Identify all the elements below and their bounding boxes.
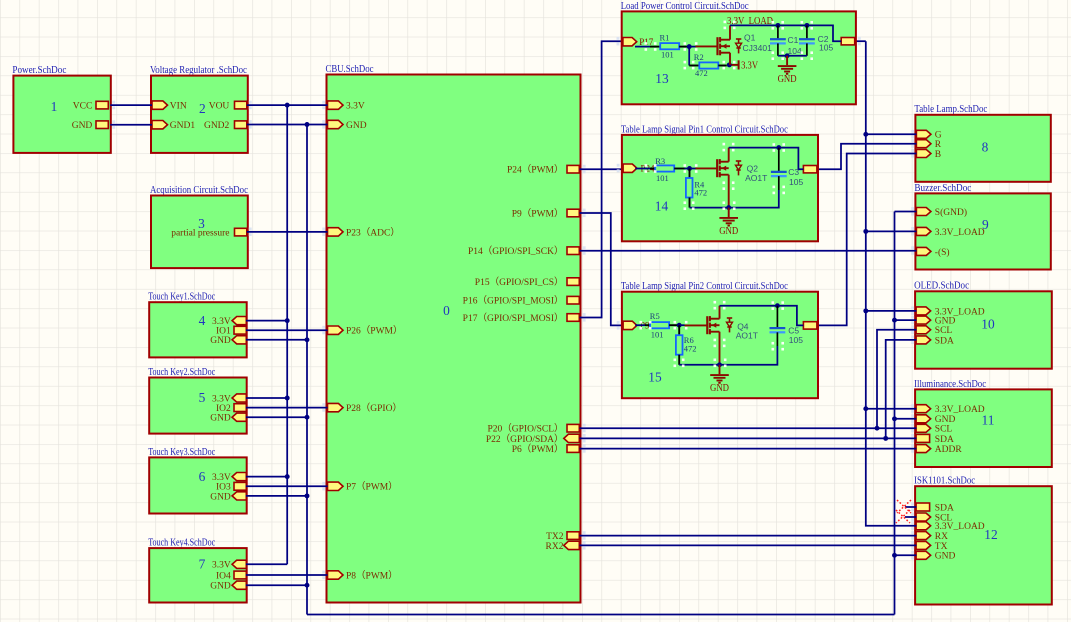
svg-text:RX: RX <box>935 532 948 542</box>
svg-text:3.3V_LOAD: 3.3V_LOAD <box>935 522 985 532</box>
wire P6 to Illuminance ADDR <box>580 448 917 450</box>
sheet entry SCL (ISK1101) <box>916 513 931 521</box>
wire block13 output to 3.3V_LOAD rail <box>856 40 866 42</box>
sheet entry P9（PWM） (CBU right) <box>567 209 579 217</box>
wire TouchKey4 GND <box>246 584 307 586</box>
svg-text:IO2: IO2 <box>216 404 231 414</box>
svg-text:472: 472 <box>694 188 707 198</box>
svg-text:OLED.SchDoc: OLED.SchDoc <box>914 281 970 292</box>
sheet entry TX (ISK1101) <box>916 541 931 549</box>
svg-text:GND: GND <box>210 492 231 502</box>
sheet entry P24（PWM） (CBU right) <box>567 165 579 173</box>
sheet entry R (Table Lamp) <box>916 140 931 148</box>
wire port to R3 <box>635 168 650 170</box>
sheet entry P17 (block13) <box>623 38 637 46</box>
svg-text:12: 12 <box>984 527 997 542</box>
svg-text:3.3V: 3.3V <box>212 317 231 327</box>
wire 3.3V_LOAD top <box>730 25 841 41</box>
svg-text:105: 105 <box>789 177 803 187</box>
sheet entry P28（GPIO） (CBU left) <box>328 403 344 411</box>
node junction C5 top <box>775 303 780 308</box>
wire R6 to bottom net <box>679 364 719 366</box>
wire bottom GND return <box>307 614 895 616</box>
svg-text:7: 7 <box>199 557 206 572</box>
svg-text:R5: R5 <box>650 311 660 321</box>
sheet entry GND (OLED) <box>916 316 931 324</box>
svg-text:P6（PWM）: P6（PWM） <box>512 443 564 455</box>
sheet entry P26（PWM） (CBU left) <box>328 326 344 334</box>
svg-text:ISK1101.SchDoc: ISK1101.SchDoc <box>914 476 975 487</box>
svg-text:GND: GND <box>210 336 231 346</box>
resistor R3 <box>655 165 674 171</box>
ground block15 <box>719 365 721 374</box>
resistor R6 <box>676 335 683 355</box>
sheet entry out (block15 right) <box>803 322 817 329</box>
wire OLED SCL down to P20 net <box>877 330 916 428</box>
svg-text:C1: C1 <box>788 35 799 45</box>
wire C1-C2 bottom <box>778 55 807 57</box>
wire ISK SDA stub <box>905 506 916 508</box>
wire P24 to block14 port <box>580 168 623 170</box>
svg-text:SCL: SCL <box>935 326 953 336</box>
pin C2 bottom <box>806 43 808 55</box>
pin C3 top <box>778 148 780 172</box>
wire partial pressure to P23 <box>247 231 328 233</box>
pin R4 bottom <box>689 198 691 208</box>
wire TouchKey2 GND <box>246 416 307 418</box>
pin R6 bottom <box>678 355 680 365</box>
sheet entry P6（PWM） (CBU right) <box>567 445 579 453</box>
node junction C2 top <box>804 23 809 28</box>
junction dots <box>285 103 290 108</box>
pin R1 right <box>679 46 689 48</box>
svg-text:105: 105 <box>789 335 803 345</box>
wire TouchKey4 3.3V <box>246 563 287 565</box>
sheet entry P24 (block14) <box>623 164 637 172</box>
pin C5 top <box>776 306 778 328</box>
sheet entry SDA (Illuminance) <box>916 434 930 442</box>
svg-text:R: R <box>935 140 942 150</box>
svg-text:AO1T: AO1T <box>745 173 767 183</box>
node junction C1 top <box>775 23 780 28</box>
transistor Q2 <box>716 159 718 177</box>
sheet entry SCL (Illuminance) <box>916 424 931 432</box>
svg-text:GND: GND <box>210 582 231 592</box>
pin C1 top <box>777 25 779 39</box>
pin C3 bottom <box>778 176 780 190</box>
wire 3.3V_LOAD rail vertical <box>866 41 917 526</box>
wire P17 to block13 port <box>580 41 623 317</box>
svg-text:3.3V: 3.3V <box>212 394 231 404</box>
resistor R1 <box>660 43 679 49</box>
sheet entry RX2 (CBU right) <box>564 541 580 549</box>
connection hotspots <box>322 101 325 104</box>
wire C3 down to bottom net <box>690 190 779 208</box>
pin R1 left <box>650 46 660 48</box>
svg-text:P20（GPIO/SCL）: P20（GPIO/SCL） <box>487 423 563 435</box>
svg-text:VOU: VOU <box>209 102 230 112</box>
svg-text:4: 4 <box>199 313 206 328</box>
sheet entry P9 (block15) <box>623 321 637 329</box>
wire port to R5 <box>635 324 645 326</box>
wire VCC to VIN <box>110 104 152 106</box>
wire P22 to Illuminance SDA <box>580 437 917 439</box>
sheet entry P14（GPIO/SPI_SCK） (CBU right) <box>567 247 579 255</box>
svg-text:8: 8 <box>982 140 989 155</box>
svg-text:C3: C3 <box>788 167 799 177</box>
compile error marker X at ISK SCL <box>896 510 910 523</box>
wire drain top to C3 <box>729 148 804 170</box>
sheet entry 3.3V_LOAD (OLED) <box>916 307 931 315</box>
svg-text:472: 472 <box>695 68 708 78</box>
wire TouchKey1 IO1 <box>246 329 328 331</box>
svg-text:Table Lamp.SchDoc: Table Lamp.SchDoc <box>914 104 987 115</box>
node junction C3 top <box>776 145 781 150</box>
sheet entry RX (ISK1101) <box>916 532 931 540</box>
resistor R4 <box>686 178 693 198</box>
selection marks block13 <box>645 42 648 45</box>
wire GND rail vertical left <box>306 125 308 615</box>
svg-text:5: 5 <box>199 390 206 405</box>
wire GND2 to CBU GND <box>247 124 328 126</box>
wire TX2 to ISK RX <box>580 535 917 537</box>
svg-text:Voltage Regulator .SchDoc: Voltage Regulator .SchDoc <box>150 65 247 76</box>
svg-text:Touch Key2.SchDoc: Touch Key2.SchDoc <box>148 367 215 378</box>
svg-text:P15（GPIO/SPI_CS）: P15（GPIO/SPI_CS） <box>475 276 564 288</box>
wire TouchKey3 3.3V <box>246 476 287 478</box>
svg-text:3.3V: 3.3V <box>346 102 365 112</box>
wire Buzzer S(GND) to GND rail <box>895 211 917 213</box>
sheet entry P8（PWM） (CBU left) <box>328 571 344 579</box>
pin C2 top <box>806 25 808 39</box>
svg-text:VIN: VIN <box>170 102 187 112</box>
wire port to R1 <box>635 46 650 48</box>
svg-text:1: 1 <box>51 99 58 114</box>
svg-text:P14（GPIO/SPI_SCK）: P14（GPIO/SPI_SCK） <box>468 245 564 257</box>
wire TouchKey4 IO4 <box>246 574 328 576</box>
svg-text:R2: R2 <box>694 52 704 62</box>
wire Illuminance 3.3V_LOAD <box>866 408 917 410</box>
svg-text:GND1: GND1 <box>170 121 196 131</box>
node junction GND tap block15 <box>717 362 722 367</box>
wire P14 to Buzzer -(S) <box>580 250 917 252</box>
wire TouchKey3 IO3 <box>246 485 328 487</box>
pin C1 bottom <box>777 43 779 55</box>
svg-text:R3: R3 <box>655 156 665 166</box>
svg-text:Q2: Q2 <box>747 163 759 173</box>
wire OLED GND <box>895 319 917 321</box>
wire RX2 to ISK TX <box>580 544 917 546</box>
pin R2 left <box>689 65 699 67</box>
wire OLED SDA down to P22 net <box>886 340 917 439</box>
svg-text:Touch Key3.SchDoc: Touch Key3.SchDoc <box>148 447 215 458</box>
pin R2 right <box>718 65 727 67</box>
wire ISK SCL stub <box>905 516 916 518</box>
node junction R2-source-3.3V <box>727 62 732 67</box>
wire P20 to Illuminance SCL <box>580 427 917 429</box>
capacitor C1 <box>770 38 786 40</box>
sheet entry TX2 (CBU right) <box>567 532 579 540</box>
svg-text:Buzzer.SchDoc: Buzzer.SchDoc <box>914 183 972 194</box>
svg-text:SDA: SDA <box>935 336 954 346</box>
svg-text:P24（PWM）: P24（PWM） <box>507 164 563 176</box>
selection marks block14 <box>645 164 648 167</box>
sheet entry SDA (ISK1101) <box>916 503 930 511</box>
node junction R5-R6-gate <box>677 323 682 328</box>
svg-text:AO1T: AO1T <box>736 330 758 340</box>
sheet entry 3.3V_LOAD (Buzzer) <box>916 227 931 235</box>
svg-text:Table Lamp Signal Pin2 Control: Table Lamp Signal Pin2 Control Circuit.S… <box>621 281 788 292</box>
wire 3.3V rail vertical <box>286 105 288 564</box>
wire TouchKey1 GND <box>246 339 307 341</box>
svg-text:GND: GND <box>935 317 956 327</box>
svg-text:P16（GPIO/SPI_MOSI）: P16（GPIO/SPI_MOSI） <box>463 295 564 307</box>
svg-text:GND: GND <box>346 121 367 131</box>
sheet entry -(S) (Buzzer) <box>916 247 931 255</box>
selection marks block15 <box>640 321 643 324</box>
sheet entry SDA (OLED) <box>916 336 931 344</box>
wire TouchKey2 IO2 <box>246 407 328 409</box>
node junction R3-R4-gate <box>687 166 692 171</box>
svg-text:S(GND): S(GND) <box>935 207 967 218</box>
svg-text:P8（PWM）: P8（PWM） <box>346 569 398 581</box>
wire GND rail vertical right <box>894 212 896 615</box>
svg-text:TX2: TX2 <box>546 532 564 542</box>
ground block14 <box>728 208 730 217</box>
sheet entry P22（GPIO/SDA） (CBU right) <box>564 434 580 442</box>
svg-text:GND: GND <box>719 225 738 237</box>
pin R3 right <box>674 168 684 170</box>
svg-text:P26（PWM）: P26（PWM） <box>346 325 402 337</box>
sheet entry GND1 <box>152 121 168 129</box>
svg-text:-(S): -(S) <box>935 247 950 258</box>
pin R6 top <box>678 325 680 335</box>
sheet entry GND (CBU left) <box>328 120 344 128</box>
svg-text:13: 13 <box>655 71 669 86</box>
svg-text:ADDR: ADDR <box>935 445 963 455</box>
svg-text:GND: GND <box>72 121 93 131</box>
sheet entry SCL (OLED) <box>916 326 931 334</box>
wire 3.3V_LOAD to Table Lamp G <box>866 133 917 135</box>
sheet entry ADDR (Illuminance) <box>916 445 931 453</box>
wire GND to GND1 <box>110 124 152 126</box>
svg-text:CBU.SchDoc: CBU.SchDoc <box>326 64 374 75</box>
sheet entry B (Table Lamp) <box>916 150 931 158</box>
sheet entry VIN <box>152 101 168 109</box>
resistor R2 <box>699 62 718 68</box>
sheet entry P7（PWM） (CBU left) <box>328 482 344 490</box>
svg-text:GND: GND <box>935 552 956 562</box>
svg-text:IO4: IO4 <box>216 571 231 581</box>
wire TouchKey3 GND <box>246 495 307 497</box>
power port 3.3V <box>732 64 739 66</box>
svg-text:101: 101 <box>651 329 664 339</box>
wire P9 to block15 port <box>580 213 623 325</box>
svg-text:SDA: SDA <box>935 503 954 513</box>
sheet entry GND (Illuminance) <box>916 415 931 423</box>
pin R5 left <box>645 324 650 326</box>
svg-text:P28（GPIO）: P28（GPIO） <box>346 402 402 414</box>
svg-text:P17: P17 <box>639 37 654 47</box>
sheet entry 3.3V_LOAD (ISK1101) <box>916 522 931 530</box>
svg-text:P22（GPIO/SDA）: P22（GPIO/SDA） <box>486 433 564 445</box>
svg-text:101: 101 <box>661 50 674 60</box>
pin C5 bottom <box>776 332 778 346</box>
svg-text:Illuminance.SchDoc: Illuminance.SchDoc <box>914 379 986 390</box>
svg-text:2: 2 <box>199 101 206 116</box>
resistor R5 <box>650 322 669 328</box>
svg-text:SCL: SCL <box>935 425 953 435</box>
svg-text:P9（PWM）: P9（PWM） <box>512 207 564 219</box>
sheet entry out (block13 right) <box>841 38 855 45</box>
wire junction to gate <box>689 46 695 48</box>
svg-text:Load Power Control Circuit.Sch: Load Power Control Circuit.SchDoc <box>621 1 749 12</box>
svg-text:VCC: VCC <box>73 102 93 112</box>
wire VOU to CBU 3.3V <box>247 104 328 106</box>
capacitor C2 <box>799 38 815 40</box>
transistor Q1 <box>716 37 718 55</box>
svg-text:IO3: IO3 <box>216 483 231 493</box>
sheet entry P20（GPIO/SCL） (CBU right) <box>567 424 579 432</box>
svg-text:GND: GND <box>935 415 956 425</box>
sheet entry P23（ADC） (CBU left) <box>328 228 344 236</box>
svg-text:Acquisition Circuit.SchDoc: Acquisition Circuit.SchDoc <box>150 185 248 196</box>
sheet entry out (block14 right) <box>803 166 817 173</box>
svg-text:GND: GND <box>778 73 797 85</box>
svg-text:15: 15 <box>648 370 662 385</box>
sheet entry G (Table Lamp) <box>916 130 931 138</box>
wire C5 down to bottom net <box>720 346 778 365</box>
wire junction to gate <box>679 324 684 326</box>
ground block13 <box>786 56 788 65</box>
wire junction to gate <box>685 168 696 170</box>
wire ISK GND <box>895 554 917 556</box>
svg-text:104: 104 <box>788 46 802 56</box>
svg-text:10: 10 <box>981 317 995 332</box>
sheet entry 3.3V_LOAD (Illuminance) <box>916 405 931 413</box>
svg-text:Q1: Q1 <box>744 32 756 42</box>
sheet entry 3.3V (CBU left) <box>328 101 344 109</box>
wire TouchKey2 3.3V <box>246 397 287 399</box>
svg-text:IO1: IO1 <box>216 327 231 337</box>
svg-text:Power.SchDoc: Power.SchDoc <box>12 65 67 76</box>
wire junction down to R2 <box>688 47 690 66</box>
sheet entry P17（GPIO/SPI_MOSI） (CBU right) <box>567 314 579 322</box>
sheet entry S(GND) (Buzzer) <box>916 208 931 216</box>
wire Buzzer 3.3V_LOAD <box>866 230 917 232</box>
wire TouchKey1 3.3V <box>246 320 287 322</box>
svg-text:GND: GND <box>710 382 729 394</box>
svg-text:Touch Key4.SchDoc: Touch Key4.SchDoc <box>148 538 215 549</box>
pin R3 left <box>650 168 655 170</box>
wire block15 output to Table Lamp B <box>818 154 917 326</box>
node junction GND tap block14 <box>726 205 731 210</box>
svg-text:105: 105 <box>819 42 833 52</box>
svg-text:6: 6 <box>199 469 206 484</box>
node junction GND tap <box>785 53 790 58</box>
svg-text:3.3V: 3.3V <box>212 561 231 571</box>
svg-text:P17（GPIO/SPI_MOSI）: P17（GPIO/SPI_MOSI） <box>463 312 564 324</box>
svg-text:Touch Key1.SchDoc: Touch Key1.SchDoc <box>148 292 215 303</box>
svg-text:SDA: SDA <box>935 435 954 445</box>
svg-text:B: B <box>935 150 941 160</box>
svg-text:3.3V_LOAD: 3.3V_LOAD <box>935 228 985 238</box>
node junction R1-R2-gate <box>687 44 692 49</box>
svg-text:P23（ADC）: P23（ADC） <box>346 226 400 238</box>
pin R5 right <box>669 324 679 326</box>
wire Illuminance GND <box>895 418 917 420</box>
sheet entry GND (ISK1101) <box>916 551 931 559</box>
capacitor C5 <box>770 327 786 329</box>
svg-text:P7（PWM）: P7（PWM） <box>346 481 398 493</box>
svg-text:RX2: RX2 <box>546 542 564 552</box>
svg-text:0: 0 <box>443 303 450 318</box>
svg-text:GND2: GND2 <box>204 121 230 131</box>
transistor Q4 <box>706 316 708 334</box>
svg-text:Table Lamp Signal Pin1 Control: Table Lamp Signal Pin1 Control Circuit.S… <box>621 124 788 135</box>
svg-text:R1: R1 <box>660 32 670 42</box>
svg-text:101: 101 <box>656 173 669 183</box>
svg-text:3.3V: 3.3V <box>212 473 231 483</box>
capacitor C3 <box>771 171 787 173</box>
sheet entry P15（GPIO/SPI_CS） (CBU right) <box>567 278 579 286</box>
svg-text:3.3V: 3.3V <box>741 61 759 72</box>
svg-text:partial pressure: partial pressure <box>171 229 229 239</box>
wire drain top to C5 <box>720 306 804 326</box>
svg-text:TX: TX <box>935 542 948 552</box>
svg-text:GND: GND <box>210 414 231 424</box>
pin R4 top <box>689 169 691 179</box>
svg-text:472: 472 <box>684 343 697 353</box>
sheet entry P16（GPIO/SPI_MOSI） (CBU right) <box>567 296 579 304</box>
compile error marker X at ISK SDA <box>897 500 911 513</box>
wire OLED 3.3V_LOAD <box>866 310 917 312</box>
wire block14 output to Table Lamp R <box>818 144 917 170</box>
svg-text:3.3V_LOAD: 3.3V_LOAD <box>935 405 985 415</box>
svg-text:14: 14 <box>655 199 669 214</box>
svg-text:CJ3401: CJ3401 <box>743 43 773 53</box>
